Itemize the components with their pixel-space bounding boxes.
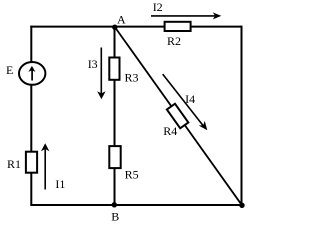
node B junction dot (112, 202, 117, 207)
wire left vertical (30, 26, 32, 205)
node A junction dot (112, 25, 117, 30)
svg-text:A: A (117, 13, 126, 27)
svg-text:R2: R2 (167, 34, 181, 48)
resistor R1 (26, 152, 37, 173)
current arrow I1 (up) (41, 143, 49, 189)
svg-text:I2: I2 (153, 0, 163, 14)
svg-text:R1: R1 (7, 157, 21, 171)
wire middle vertical A to B (114, 27, 116, 205)
svg-text:I1: I1 (55, 177, 65, 191)
svg-text:I4: I4 (185, 92, 195, 106)
svg-text:R5: R5 (125, 167, 139, 181)
svg-text:E: E (6, 63, 13, 77)
current arrow I2 (right) (151, 12, 221, 19)
voltage source E (circle with up arrow) (19, 62, 45, 85)
resistor R4 (on diagonal) (167, 104, 188, 129)
svg-text:B: B (111, 210, 119, 224)
resistor R3 (109, 58, 119, 80)
wire right vertical (241, 26, 243, 206)
junction dot bottom-right corner (239, 203, 244, 208)
svg-text:R3: R3 (125, 71, 139, 85)
resistor R5 (109, 146, 120, 168)
wire diagonal A to bottom-right corner (115, 27, 242, 205)
svg-text:R4: R4 (163, 124, 177, 138)
resistor R2 (165, 22, 191, 31)
svg-text:I3: I3 (88, 57, 98, 71)
current arrow I3 (down) (97, 48, 105, 100)
wire top horizontal (30, 26, 241, 28)
wire bottom horizontal (30, 204, 242, 206)
current arrow I4 (down-right) (163, 74, 211, 133)
